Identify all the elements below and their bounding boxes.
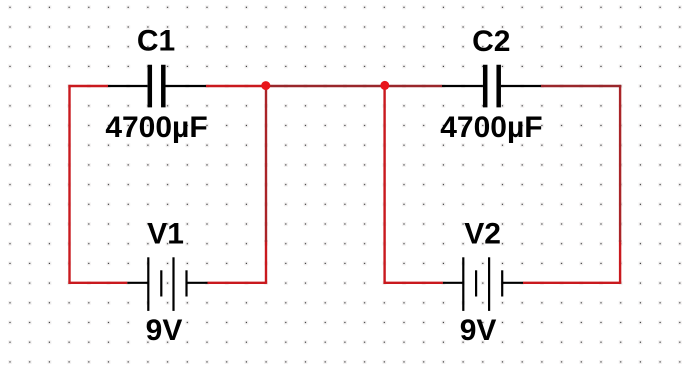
svg-text:C2: C2	[472, 25, 510, 58]
svg-text:V2: V2	[464, 218, 501, 251]
svg-text:9V: 9V	[146, 314, 183, 347]
svg-text:4700µF: 4700µF	[440, 111, 542, 144]
svg-text:4700µF: 4700µF	[105, 111, 207, 144]
svg-text:C1: C1	[137, 25, 175, 58]
svg-text:V1: V1	[147, 218, 184, 251]
svg-text:9V: 9V	[460, 314, 497, 347]
